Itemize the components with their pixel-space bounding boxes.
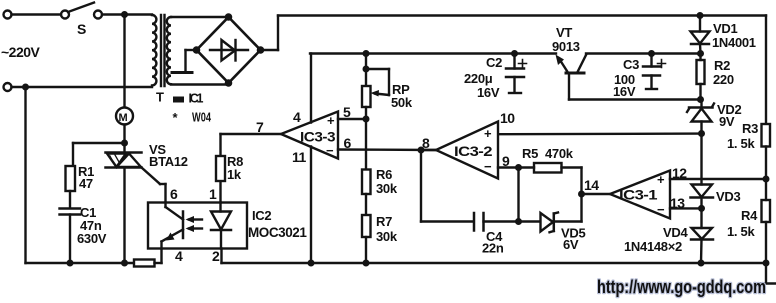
svg-text:5: 5 [343,104,351,120]
svg-text:~220V: ~220V [1,44,41,60]
svg-text:C3: C3 [623,57,639,72]
svg-text:VD3: VD3 [716,189,740,204]
svg-text:12: 12 [672,165,687,181]
svg-text:10: 10 [500,110,515,126]
svg-text:http://www.go-gddq.com: http://www.go-gddq.com [597,276,766,297]
svg-text:220μ: 220μ [464,71,493,86]
svg-text:4: 4 [293,109,301,125]
svg-text:9V: 9V [719,114,735,129]
svg-text:22n: 22n [482,241,504,256]
svg-text:50k: 50k [391,95,413,110]
svg-text:220: 220 [713,72,734,87]
svg-text:11: 11 [292,149,307,165]
svg-text:6: 6 [170,186,178,202]
svg-text:14: 14 [584,177,599,193]
svg-text:1: 1 [209,186,217,202]
svg-text:8: 8 [422,135,430,151]
svg-text:IC1: IC1 [189,92,204,106]
svg-text:16V: 16V [613,84,636,99]
svg-text:1N4001: 1N4001 [712,35,756,50]
svg-text:R5: R5 [522,146,538,161]
svg-text:IC3-2: IC3-2 [454,144,492,159]
svg-text:30k: 30k [376,181,398,196]
svg-text:470k: 470k [545,146,574,161]
svg-text:2: 2 [212,248,220,264]
svg-text:47: 47 [79,176,93,191]
svg-text:IC2: IC2 [252,208,271,223]
svg-text:7: 7 [256,119,264,135]
svg-text:1N4148×2: 1N4148×2 [624,239,682,254]
svg-text:S: S [77,21,86,37]
svg-text:+: + [657,172,665,187]
svg-text:VD1: VD1 [713,21,737,36]
svg-text:T: T [156,90,164,105]
svg-text:R7: R7 [376,214,392,229]
svg-text:R6: R6 [376,167,392,182]
svg-text:9: 9 [502,153,510,169]
svg-text:630V: 630V [77,231,107,246]
svg-text:−: − [484,159,492,174]
svg-text:W04: W04 [192,111,211,125]
svg-text:1. 5k: 1. 5k [727,136,755,151]
svg-text:C2: C2 [486,55,502,70]
svg-text:M: M [119,112,128,124]
svg-text:4: 4 [175,248,183,264]
svg-text:MOC3021: MOC3021 [248,225,307,240]
svg-text:16V: 16V [477,85,500,100]
svg-text:−: − [326,143,334,158]
svg-text:R3: R3 [742,121,758,136]
svg-text:9013: 9013 [552,39,580,54]
svg-text:IC3-1: IC3-1 [619,188,658,203]
svg-text:13: 13 [670,195,685,211]
svg-text:6: 6 [344,135,352,151]
svg-text:BTA12: BTA12 [149,154,188,169]
svg-text:*: * [173,110,179,125]
svg-text:+: + [484,126,492,141]
svg-text:30k: 30k [376,229,398,244]
svg-text:+: + [327,113,335,128]
svg-text:VT: VT [556,25,572,40]
svg-text:1k: 1k [227,167,242,182]
svg-text:R2: R2 [714,58,730,73]
svg-text:6V: 6V [563,237,579,252]
svg-text:R4: R4 [741,208,758,223]
svg-text:1. 5k: 1. 5k [727,224,755,239]
svg-text:−: − [657,202,665,217]
svg-text:VD4: VD4 [663,225,688,240]
